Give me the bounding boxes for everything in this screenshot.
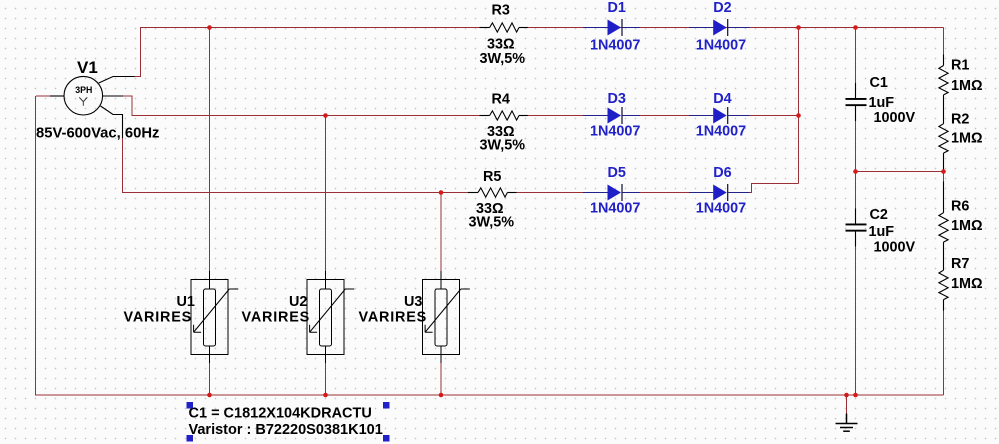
capacitor C2 (846, 209, 867, 247)
svg-text:D1: D1 (608, 0, 626, 16)
resistor R6 (939, 182, 948, 260)
svg-text:1N4007: 1N4007 (590, 38, 640, 54)
svg-text:1MΩ: 1MΩ (951, 218, 983, 234)
junction node R2-R6 mid (941, 169, 946, 174)
svg-text:1N4007: 1N4007 (696, 124, 746, 140)
diode D4 (689, 107, 750, 124)
svg-text:U1: U1 (177, 294, 195, 310)
junction node U3 bottom (439, 393, 444, 398)
svg-text:D3: D3 (608, 91, 626, 107)
svg-text:1N4007: 1N4007 (590, 201, 640, 217)
svg-text:D4: D4 (713, 91, 731, 107)
wire: ground stub red (846, 395, 848, 414)
resistor R5 (468, 188, 517, 197)
capacitor C1 (846, 83, 867, 121)
wire: row3 red between D5 and D6 (640, 192, 689, 194)
svg-text:U3: U3 (404, 294, 422, 310)
varistor U2 (307, 271, 354, 363)
svg-text:Varistor : B72220S0381K101: Varistor : B72220S0381K101 (189, 422, 383, 438)
wire: phase B red from V1 to row 2 (123, 96, 584, 116)
junction node B row2 (323, 113, 328, 118)
svg-text:1000V: 1000V (874, 240, 916, 256)
varistor U1 (191, 271, 238, 363)
svg-text:R3: R3 (492, 2, 510, 18)
wire: capacitor column vertical (855, 28, 857, 396)
resistor R1 (939, 55, 948, 114)
svg-text:U2: U2 (289, 294, 307, 310)
svg-text:VARIRES: VARIRES (242, 310, 311, 326)
diode D1 (583, 19, 640, 36)
svg-text:1MΩ: 1MΩ (951, 78, 983, 94)
svg-text:D5: D5 (608, 165, 626, 181)
junction node C row3 (439, 190, 444, 195)
wire: row2 red between D3 and D4 (640, 115, 689, 117)
wire: bottom ground rail (36, 96, 944, 395)
selection handle bottom-left (187, 435, 194, 442)
svg-text:1N4007: 1N4007 (696, 201, 746, 217)
wire: left red stub from V1 (36, 95, 50, 97)
diode D5 (583, 184, 640, 201)
svg-text:R1: R1 (951, 58, 969, 74)
junction node U1 bottom (207, 393, 212, 398)
svg-text:1000V: 1000V (874, 110, 916, 126)
svg-text:C1: C1 (870, 75, 888, 91)
svg-text:3W,5%: 3W,5% (480, 51, 526, 67)
resistor R3 (480, 23, 528, 32)
varistor U3 (423, 271, 470, 363)
junction node ground (844, 393, 849, 398)
svg-text:R5: R5 (483, 169, 501, 185)
wire: row3 output jog from D6 (746, 184, 799, 193)
wire: varistor U3 branch vertical (440, 193, 442, 281)
selection handle top-left (187, 402, 194, 409)
wire: top bus (phase A / + rail) (141, 28, 944, 77)
wire: row2 output from D4 to bus junction (746, 115, 799, 117)
svg-text:3PH: 3PH (75, 85, 92, 95)
svg-text:1uF: 1uF (869, 95, 895, 111)
wire: phase C vertical and row 3 (123, 137, 584, 193)
diode D6 (689, 184, 750, 201)
svg-text:C2: C2 (870, 207, 888, 223)
ground (836, 414, 858, 432)
source V1 internal Y symbol (79, 97, 87, 105)
svg-text:1N4007: 1N4007 (696, 38, 746, 54)
resistor R7 (939, 259, 948, 310)
wire: middle link between R2/R6 and C1/C2 (856, 171, 944, 173)
svg-text:1MΩ: 1MΩ (951, 276, 983, 292)
wire: row1 red between D1 and D2 (640, 27, 689, 29)
wire: varistor U1 branch vertical (209, 28, 211, 281)
svg-text:C1 = C1812X104KDRACTU: C1 = C1812X104KDRACTU (189, 406, 372, 422)
source V1 (50, 76, 135, 138)
svg-text:V1: V1 (77, 58, 98, 77)
wire: varistor U2 branch vertical (325, 116, 327, 281)
svg-text:D2: D2 (713, 0, 731, 16)
selection handle bottom-right (383, 435, 390, 442)
junction node C1 top (853, 25, 858, 30)
svg-text:R2: R2 (951, 112, 969, 128)
svg-text:1N4007: 1N4007 (590, 124, 640, 140)
junction node U2 bottom (323, 393, 328, 398)
svg-text:85V-600Vac, 60Hz: 85V-600Vac, 60Hz (36, 126, 159, 142)
selection handle top-right (383, 402, 390, 409)
wire: phase A red horizontal from V1 stub (134, 76, 141, 78)
svg-text:VARIRES: VARIRES (359, 310, 428, 326)
resistor R4 (480, 111, 528, 120)
junction node D4 output (796, 113, 801, 118)
svg-text:R6: R6 (951, 199, 969, 215)
svg-text:VARIRES: VARIRES (124, 310, 193, 326)
junction node C1-C2 mid (853, 169, 858, 174)
svg-text:1uF: 1uF (869, 224, 895, 240)
junction node A top (207, 25, 212, 30)
wire: rectifier output bus vertical x=798.5 (798, 28, 800, 184)
svg-text:D6: D6 (713, 165, 731, 181)
svg-text:R4: R4 (492, 92, 510, 108)
wire masks under component bodies (478, 28, 944, 300)
svg-text:1MΩ: 1MΩ (951, 131, 983, 147)
diode D2 (689, 19, 750, 36)
svg-text:R7: R7 (951, 256, 969, 272)
svg-text:3W,5%: 3W,5% (469, 215, 515, 231)
wire: right bus vertical (R1-R7 column) (943, 28, 945, 396)
junction node bus top at x=798.5 (796, 25, 801, 30)
resistor R2 (939, 113, 948, 170)
diode D3 (583, 107, 640, 124)
junction node C2 bottom (853, 393, 858, 398)
svg-text:3W,5%: 3W,5% (480, 138, 526, 154)
